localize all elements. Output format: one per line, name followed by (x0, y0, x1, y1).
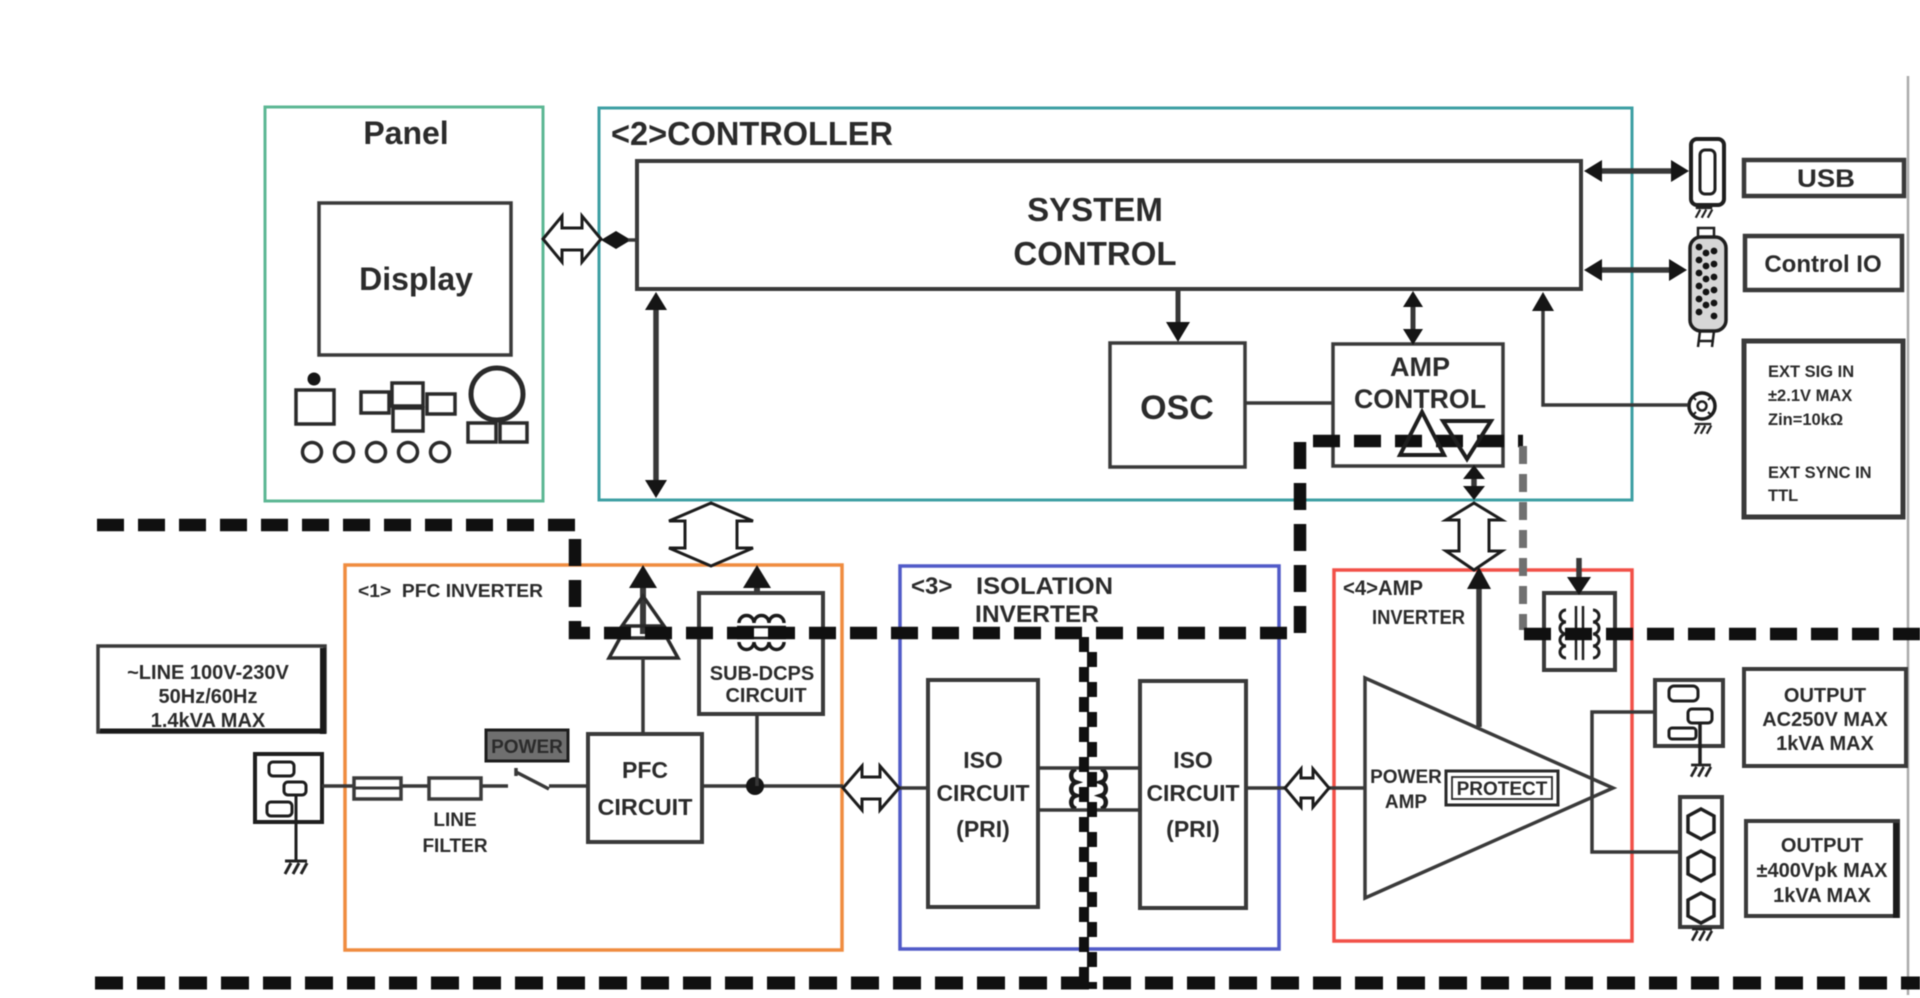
svg-text:OUTPUT: OUTPUT (1784, 685, 1866, 707)
svg-text:EXT SYNC IN: EXT SYNC IN (1768, 464, 1872, 482)
svg-text:~LINE 100V-230V: ~LINE 100V-230V (127, 662, 289, 684)
svg-text:Zin=10kΩ: Zin=10kΩ (1768, 411, 1843, 429)
svg-text:AMP: AMP (1390, 352, 1450, 382)
svg-text:Control IO: Control IO (1764, 251, 1881, 278)
svg-text:<3>: <3> (911, 573, 952, 600)
svg-text:1kVA MAX: 1kVA MAX (1776, 733, 1874, 755)
svg-text:CIRCUIT: CIRCUIT (725, 685, 806, 707)
svg-text:(PRI): (PRI) (956, 816, 1010, 842)
svg-text:Panel: Panel (363, 115, 448, 151)
svg-text:POWER: POWER (491, 737, 563, 758)
svg-text:ISO: ISO (1173, 747, 1213, 773)
svg-text:(PRI): (PRI) (1166, 816, 1220, 842)
svg-text:Display: Display (359, 261, 473, 297)
svg-text:AMP: AMP (1385, 792, 1428, 813)
svg-text:AC250V MAX: AC250V MAX (1762, 709, 1888, 731)
svg-text:ISOLATION: ISOLATION (976, 573, 1113, 600)
svg-text:CONTROL: CONTROL (1013, 235, 1176, 272)
svg-text:ISO: ISO (963, 747, 1003, 773)
svg-text:CIRCUIT: CIRCUIT (1147, 780, 1240, 806)
svg-text:±400Vpk MAX: ±400Vpk MAX (1756, 860, 1888, 882)
svg-text:CIRCUIT: CIRCUIT (598, 794, 693, 820)
svg-text:FILTER: FILTER (422, 836, 487, 857)
svg-text:INVERTER: INVERTER (975, 601, 1099, 628)
svg-text:SYSTEM: SYSTEM (1027, 191, 1163, 228)
svg-text:<4>AMP: <4>AMP (1343, 577, 1423, 600)
svg-text:OSC: OSC (1140, 389, 1214, 427)
svg-text:±2.1V MAX: ±2.1V MAX (1768, 387, 1852, 405)
svg-text:OUTPUT: OUTPUT (1781, 835, 1863, 857)
svg-text:EXT SIG IN: EXT SIG IN (1768, 363, 1854, 381)
svg-text:CONTROL: CONTROL (1354, 384, 1486, 414)
svg-text:PFC: PFC (622, 757, 668, 783)
svg-text:<2>CONTROLLER: <2>CONTROLLER (611, 115, 893, 152)
svg-text:POWER: POWER (1370, 767, 1442, 788)
svg-text:SUB-DCPS: SUB-DCPS (710, 663, 814, 685)
svg-text:<1> PFC INVERTER: <1> PFC INVERTER (358, 581, 543, 601)
svg-text:PROTECT: PROTECT (1457, 779, 1548, 800)
svg-text:1.4kVA MAX: 1.4kVA MAX (151, 710, 266, 732)
svg-text:CIRCUIT: CIRCUIT (937, 780, 1030, 806)
svg-text:50Hz/60Hz: 50Hz/60Hz (159, 686, 258, 708)
svg-text:1kVA MAX: 1kVA MAX (1773, 885, 1871, 907)
svg-text:LINE: LINE (433, 810, 476, 831)
svg-text:USB: USB (1797, 165, 1855, 193)
svg-text:INVERTER: INVERTER (1372, 607, 1466, 629)
svg-text:TTL: TTL (1768, 487, 1798, 505)
